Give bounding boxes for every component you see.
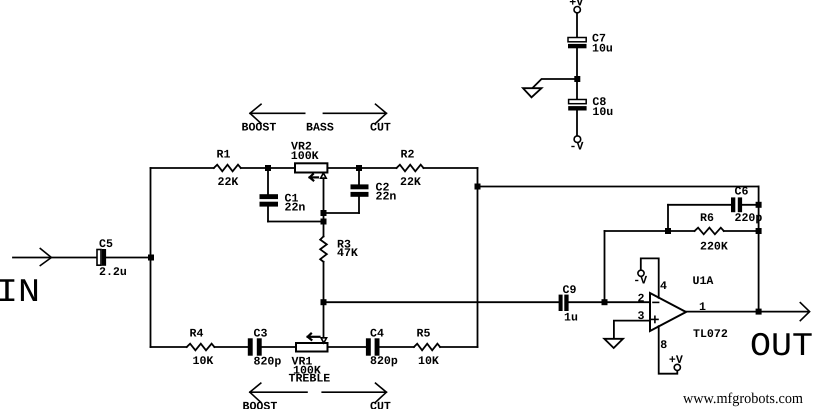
svg-text:10K: 10K	[418, 355, 439, 368]
svg-text:2.2u: 2.2u	[99, 266, 127, 279]
-V terminal	[570, 136, 584, 154]
svg-text:www.mfgrobots.com: www.mfgrobots.com	[683, 391, 803, 407]
potentiometer VR2	[291, 141, 328, 181]
capacitor C1	[260, 168, 306, 222]
output arrow	[800, 303, 809, 321]
node junction R1 C1	[265, 165, 271, 171]
wire input	[13, 257, 97, 259]
svg-text:C4: C4	[370, 328, 384, 341]
capacitor C8	[568, 96, 613, 119]
junction R6 C6 left	[665, 228, 671, 234]
treble cut arrow	[322, 383, 391, 409]
wire C5 to node A	[106, 257, 151, 259]
wire R1 to VR2	[241, 167, 295, 169]
node junction VR2 C2	[356, 165, 362, 171]
svg-text:4: 4	[660, 280, 667, 293]
junction power midpoint	[574, 76, 580, 82]
treble boost arrow	[243, 383, 308, 409]
svg-text:C3: C3	[254, 328, 268, 341]
node A junction	[148, 255, 154, 261]
junction R3 mid rail	[321, 299, 327, 305]
svg-text:10u: 10u	[592, 106, 613, 119]
svg-text:C5: C5	[99, 238, 113, 251]
svg-text:R6: R6	[700, 212, 714, 225]
wire C9 to op-amp pin 2	[569, 301, 650, 303]
svg-text:1u: 1u	[564, 312, 578, 325]
wire node B to output node	[478, 186, 759, 188]
resistor R1	[214, 148, 241, 189]
wire R6 to output node	[724, 230, 759, 232]
wire C3 to VR1	[262, 346, 296, 348]
svg-text:+V: +V	[669, 354, 683, 367]
svg-text:TREBLE: TREBLE	[289, 373, 331, 386]
resistor R3	[320, 236, 358, 261]
wire output	[686, 311, 808, 313]
svg-text:C9: C9	[563, 284, 577, 297]
wire node B vertical	[477, 168, 479, 347]
svg-text:10u: 10u	[592, 42, 613, 55]
svg-text:CUT: CUT	[370, 122, 391, 135]
wire node A vertical	[150, 168, 152, 347]
wire +V to C7	[576, 13, 578, 38]
wire pin 3	[614, 321, 650, 339]
svg-text:820p: 820p	[370, 355, 398, 368]
svg-text:-V: -V	[633, 275, 647, 288]
wire VR2 to R2	[327, 167, 396, 169]
svg-text:22K: 22K	[218, 176, 239, 189]
svg-text:OUT: OUT	[750, 328, 813, 365]
wire to power ground	[533, 79, 578, 88]
wire VR1 to C4	[328, 346, 366, 348]
wire treble rail left	[151, 346, 187, 348]
wire R4 to C3	[214, 346, 247, 348]
svg-text:22K: 22K	[400, 176, 421, 189]
wire R2 to node B	[424, 167, 478, 169]
junction R6 right	[756, 228, 762, 234]
wire C7 to midpoint	[576, 48, 578, 99]
svg-text:TL072: TL072	[693, 328, 728, 341]
svg-text:820p: 820p	[254, 356, 282, 369]
svg-text:C6: C6	[735, 186, 749, 199]
svg-text:100K: 100K	[291, 150, 319, 163]
svg-text:47K: 47K	[337, 247, 358, 260]
pin 4 rail -V	[633, 258, 659, 298]
svg-text:10K: 10K	[193, 355, 214, 368]
svg-text:2: 2	[638, 293, 645, 306]
junction C1 rail wiper	[321, 219, 327, 225]
wire VR2 wiper down	[323, 178, 325, 236]
pin 8 rail +V	[659, 326, 683, 374]
svg-text:R4: R4	[190, 328, 204, 341]
svg-text:R1: R1	[217, 148, 231, 161]
junction inverting input	[602, 299, 608, 305]
wire mid rail to VR1 wiper	[323, 302, 325, 338]
capacitor C4	[366, 328, 398, 368]
resistor R6	[695, 212, 728, 254]
svg-text:220K: 220K	[700, 241, 728, 254]
potentiometer VR1	[289, 334, 331, 386]
bass boost arrow	[242, 104, 305, 134]
op-amp U1A	[638, 275, 728, 352]
capacitor C2	[351, 168, 397, 213]
svg-text:R5: R5	[417, 328, 431, 341]
svg-text:CUT: CUT	[370, 400, 391, 409]
wire feedback left vertical	[604, 231, 606, 302]
svg-text:22n: 22n	[285, 202, 306, 215]
input signal arrow	[40, 249, 51, 266]
svg-text:22n: 22n	[376, 191, 397, 204]
svg-text:8: 8	[660, 339, 667, 352]
svg-text:IN: IN	[0, 274, 40, 311]
capacitor C6	[668, 186, 762, 231]
junction output	[756, 309, 762, 315]
wire to R6	[605, 230, 695, 232]
svg-text:+V: +V	[569, 0, 583, 9]
svg-text:BASS: BASS	[306, 122, 334, 135]
svg-text:R2: R2	[401, 148, 415, 161]
wire C4 to R5	[380, 346, 414, 348]
wire C1 to wiper rail	[268, 221, 324, 223]
wire R3 to mid rail	[323, 262, 325, 302]
wire C2 to wiper rail	[324, 212, 360, 214]
svg-text:BOOST: BOOST	[243, 400, 278, 409]
junction C2 rail wiper	[321, 210, 327, 216]
wire top rail left	[151, 167, 214, 169]
ground pin 3	[604, 339, 623, 348]
capacitor C9	[559, 284, 578, 325]
resistor R5	[414, 328, 440, 368]
svg-text:U1A: U1A	[693, 275, 714, 288]
capacitor C7	[568, 33, 613, 56]
capacitor C5	[97, 238, 127, 279]
svg-text:-V: -V	[570, 141, 584, 154]
wire mid rail	[324, 301, 559, 303]
node B junction	[475, 184, 481, 190]
wire C8 to -V	[576, 111, 578, 136]
resistor R2	[397, 148, 424, 189]
+V terminal	[569, 0, 583, 13]
resistor R4	[187, 328, 215, 368]
bass cut arrow	[323, 104, 391, 134]
wire R5 to node B	[440, 346, 477, 348]
power ground	[523, 88, 542, 97]
wire right vertical output node	[758, 187, 760, 312]
junction C6 right	[756, 202, 762, 208]
capacitor C3	[248, 328, 282, 369]
svg-text:BOOST: BOOST	[242, 122, 277, 135]
